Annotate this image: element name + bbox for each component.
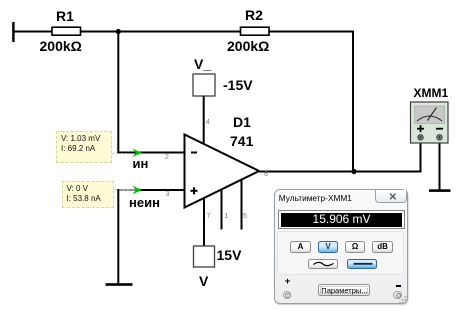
wire junction down to inverting corner [117,31,119,154]
wire R2 to right corner [269,31,354,33]
XMM1 icon needle [428,108,437,121]
probe label 1 [56,131,112,163]
label XMM1 [414,87,449,99]
wire to inverting input [117,152,185,154]
leader probe 1 [108,153,130,155]
label V- [194,57,211,71]
node output junction [351,169,356,174]
wire R1 to R2 [81,31,241,33]
label R2 [245,8,263,22]
op-amp D1 triangle [185,135,260,208]
node junction feedback [116,29,121,34]
window close button [375,190,407,203]
multimeter XMM1 icon body [411,102,449,143]
pin 3 [166,191,170,198]
label D1 [233,115,251,129]
wire XMM1 plus terminal [420,140,422,173]
output wire pin6 [258,171,422,173]
minus input mark [191,152,197,154]
wire non-inverting down to ground [117,189,119,284]
pin 7 [207,213,211,220]
net label in [133,157,149,170]
XMM1 icon terminal minus [437,135,442,140]
params button [318,284,370,297]
button A [290,241,311,253]
pin 4 [206,119,210,126]
wire input to R1 [13,31,52,33]
pin 5 [243,213,247,220]
pin 6 [264,171,268,178]
label R1 [56,9,74,23]
XMM1 icon display [415,106,445,124]
wire to non-inverting input gray segment [117,189,136,191]
wire to non-inverting input [140,189,185,191]
net label nonin [129,196,160,209]
button dB [372,241,394,253]
pin 1 wire [221,189,223,230]
plus terminal label [285,277,291,287]
value R2 [227,39,269,53]
value -15V [223,78,253,92]
V- supply box [193,74,215,96]
leader probe 2 [110,189,130,191]
XMM1 icon plus mark [417,128,424,130]
button Ohm [345,241,366,253]
plus terminal socket [283,291,292,300]
pin 7 wire [203,198,205,247]
pin 4 wire [203,96,205,145]
XMM1 icon scale arc [417,116,442,121]
XMM1 icon minus mark [436,128,443,130]
minus terminal socket [393,291,402,300]
plus input mark [191,190,198,192]
ground G2 bar [429,189,451,192]
minus terminal label [396,285,401,287]
probe label 2 [62,181,115,209]
V+ supply box [194,246,215,267]
pin 1 [225,213,229,220]
value 15V [217,248,242,262]
multimeter window XMM1 [274,189,409,304]
probe arrow 2 [133,186,143,194]
ground G1 bar [106,283,133,286]
wire down from R2 to output net [352,31,354,172]
measurement display [278,210,405,229]
button V selected [318,241,339,253]
button panel groove [277,231,404,275]
label V+ [199,274,208,288]
resistor R1 [52,27,81,35]
pin 2 [165,154,169,161]
value R1 [40,39,82,53]
button DC selected [347,259,377,270]
XMM1 icon terminal plus [418,135,423,140]
probe arrow 1 [133,149,143,157]
window title [279,193,352,203]
resistor R2 [241,27,270,35]
pin 5 wire [241,180,243,230]
button AC [308,259,338,270]
wire XMM1 minus terminal down [439,140,441,191]
input terminal bar [12,22,14,42]
resize grip [399,296,407,304]
value 741 [230,134,253,148]
